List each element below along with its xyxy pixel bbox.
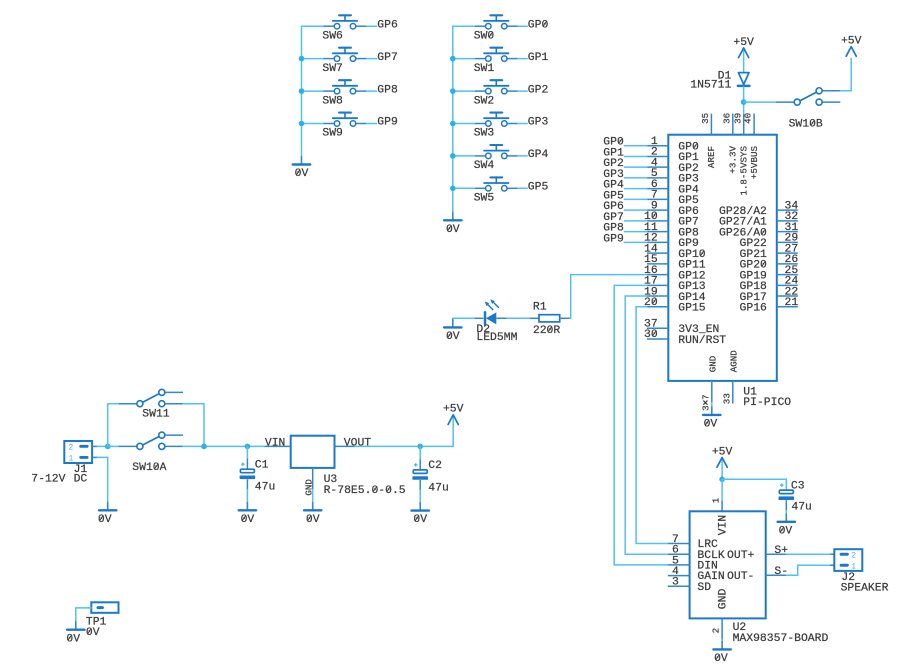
wire SW11 to right bus bbox=[183, 404, 204, 447]
pin 36 +3.3V of U1 bbox=[732, 114, 734, 135]
pin VOUT of U3 bbox=[335, 445, 355, 447]
regulator U3 body bbox=[291, 436, 335, 468]
ground 0V under C2 bbox=[419, 502, 421, 510]
wire junction to SW10B bbox=[744, 101, 777, 103]
svg-text:35: 35 bbox=[700, 113, 711, 124]
svg-text:VIN: VIN bbox=[265, 437, 286, 449]
wire GP14 net: U1 pin19 to U2 BCLK bbox=[625, 296, 668, 554]
wire J1 pin2 to junction bbox=[97, 445, 107, 447]
svg-text:SD: SD bbox=[697, 582, 711, 594]
svg-text:1N5711: 1N5711 bbox=[690, 79, 731, 91]
svg-text:OUT-: OUT- bbox=[727, 571, 754, 583]
svg-text:GP8: GP8 bbox=[377, 84, 398, 96]
pin 9 GP6 of U1 bbox=[647, 209, 668, 211]
pin 37 3V3_EN of U1 bbox=[647, 327, 668, 329]
switch SW10B bbox=[776, 88, 840, 105]
svg-text:GP1: GP1 bbox=[528, 52, 549, 64]
svg-text:2: 2 bbox=[69, 444, 74, 453]
wire GP13 net: U1 pin17 to U2 DIN bbox=[614, 285, 668, 565]
svg-text:MAX98357-BOARD: MAX98357-BOARD bbox=[733, 633, 829, 645]
pin 40 +5VBUS of U1 bbox=[753, 114, 755, 135]
svg-text:30: 30 bbox=[644, 329, 658, 341]
svg-text:21: 21 bbox=[785, 297, 799, 309]
junction column 1 bbox=[299, 56, 305, 62]
capacitor C3 bbox=[779, 483, 795, 513]
wire to GP7 label bbox=[367, 58, 377, 60]
push-button SW6 bbox=[324, 15, 367, 29]
svg-text:+5V: +5V bbox=[443, 404, 464, 416]
pin 4 GAIN of U2 bbox=[668, 575, 690, 577]
wire GP5 row left bbox=[453, 187, 475, 189]
svg-text:AREF: AREF bbox=[706, 146, 717, 168]
wire GP0 to U1 bbox=[624, 145, 647, 147]
wire to GP0 label bbox=[518, 25, 527, 27]
ground 0V under C1 bbox=[246, 502, 248, 510]
wire GP4 to U1 bbox=[624, 188, 647, 190]
wire SW10A to VIN bbox=[183, 445, 265, 447]
svg-text:3: 3 bbox=[672, 577, 679, 589]
wire SW10B to +5V bbox=[840, 58, 851, 91]
wire D1 to VSYS junction bbox=[743, 87, 745, 114]
wire S+ to J2 bbox=[786, 553, 830, 555]
wire S- to J2 bbox=[786, 565, 830, 575]
svg-text:GP2: GP2 bbox=[528, 84, 549, 96]
wire GP2 to U1 bbox=[624, 166, 647, 168]
pin 5 DIN of U2 bbox=[668, 564, 689, 566]
push-button SW3 bbox=[475, 113, 518, 127]
pin 24 GP18 of U1 bbox=[777, 284, 798, 286]
svg-text:GP3: GP3 bbox=[528, 117, 549, 129]
svg-text:+3.3V: +3.3V bbox=[728, 146, 739, 174]
wire J1 pin1 to 0V bbox=[97, 457, 107, 502]
junction column 2 bbox=[450, 186, 456, 192]
pin 20 GP15 of U1 bbox=[647, 306, 668, 308]
connector J2 bbox=[830, 549, 862, 571]
junction column 1 bbox=[299, 121, 305, 127]
switch SW11 bbox=[119, 389, 183, 406]
wire GP2 row left bbox=[453, 90, 475, 92]
junction column 1 bbox=[299, 88, 305, 94]
svg-text:2: 2 bbox=[851, 552, 856, 561]
ground 0V under C3 bbox=[785, 513, 787, 521]
wire GP7 row left bbox=[302, 58, 324, 60]
pin 25 GP19 of U1 bbox=[777, 274, 798, 276]
connector J1 bbox=[64, 441, 92, 463]
push-button SW9 bbox=[324, 113, 367, 127]
push-button SW8 bbox=[324, 80, 367, 94]
svg-text:GP4: GP4 bbox=[528, 149, 549, 161]
ground 0V column 1 bbox=[301, 156, 303, 164]
svg-text:GP5: GP5 bbox=[528, 182, 549, 194]
svg-text:VOUT: VOUT bbox=[344, 437, 372, 449]
svg-text:3×7: 3×7 bbox=[701, 394, 712, 411]
svg-text:GP9: GP9 bbox=[603, 233, 624, 245]
pin 2 GP1 of U1 bbox=[647, 155, 668, 157]
wire 0V bus column 2 bbox=[452, 26, 454, 212]
pin 27 GP21 of U1 bbox=[777, 252, 798, 254]
svg-text:1: 1 bbox=[851, 563, 856, 572]
pin 5 GP3 of U1 bbox=[647, 177, 668, 179]
wire GP6 row left bbox=[302, 25, 324, 27]
svg-text:SW11: SW11 bbox=[142, 408, 170, 420]
wire junction up to SW11 bbox=[108, 404, 119, 447]
resistor R1 bbox=[530, 315, 569, 322]
push-button SW7 bbox=[324, 48, 367, 62]
pin 3 SD of U2 bbox=[668, 585, 690, 587]
svg-text:47u: 47u bbox=[791, 502, 812, 514]
svg-text:39: 39 bbox=[732, 113, 743, 124]
pin 16 GP12 of U1 bbox=[647, 274, 668, 276]
pin 11 GP8 of U1 bbox=[647, 231, 668, 233]
pin 10 GP7 of U1 bbox=[647, 220, 668, 222]
switch SW10A bbox=[119, 432, 183, 449]
svg-text:SW6: SW6 bbox=[322, 30, 343, 42]
LED D2 bbox=[475, 299, 507, 324]
svg-text:SW4: SW4 bbox=[474, 160, 495, 172]
wire GP15 net: U1 pin20 to U2 LRC bbox=[636, 307, 668, 544]
wire VOUT to +5V and C2 bbox=[355, 445, 454, 447]
wire to GP5 label bbox=[518, 187, 527, 189]
svg-text:SPEAKER: SPEAKER bbox=[841, 583, 889, 595]
svg-text:+5V: +5V bbox=[841, 36, 862, 48]
svg-text:GP15: GP15 bbox=[678, 303, 706, 315]
power symbol +5V at VOUT bbox=[448, 415, 458, 425]
test point TP1 bbox=[91, 602, 118, 613]
svg-text:2: 2 bbox=[711, 628, 722, 634]
svg-text:C3: C3 bbox=[791, 480, 805, 492]
pin 35 AREF of U1 bbox=[710, 114, 712, 135]
pin 34 GP28/A2 of U1 bbox=[777, 209, 798, 211]
svg-text:GP16: GP16 bbox=[740, 303, 768, 315]
svg-text:+5VBUS: +5VBUS bbox=[749, 146, 760, 180]
svg-text:OUT+: OUT+ bbox=[727, 550, 755, 562]
svg-text:C1: C1 bbox=[255, 459, 269, 471]
junction at VSYS bbox=[741, 99, 747, 105]
svg-text:SW1: SW1 bbox=[474, 63, 495, 75]
svg-text:R1: R1 bbox=[533, 302, 547, 314]
svg-text:SW10A: SW10A bbox=[132, 462, 166, 474]
pin 1 stub of J1 bbox=[92, 456, 97, 458]
pin 7 LRC of U2 bbox=[668, 543, 689, 545]
ground 0V under U1 GND bbox=[711, 402, 713, 406]
IC U2 MAX98357 body bbox=[690, 511, 766, 618]
pin 15 GP11 of U1 bbox=[647, 263, 668, 265]
pin 39 1.8-5VSYS of U1 bbox=[743, 114, 745, 135]
pin 4 GP2 of U1 bbox=[647, 166, 668, 168]
pin 2 GND of U2 bbox=[721, 618, 723, 639]
svg-text:1.8-5VSYS: 1.8-5VSYS bbox=[738, 146, 749, 196]
svg-text:GP0: GP0 bbox=[528, 19, 549, 31]
svg-text:SW3: SW3 bbox=[474, 128, 495, 140]
svg-text:GP6: GP6 bbox=[377, 19, 398, 31]
svg-text:GP9: GP9 bbox=[377, 117, 398, 129]
svg-text:DC: DC bbox=[74, 473, 88, 485]
pin 6 GP4 of U1 bbox=[647, 188, 668, 190]
svg-text:SW10B: SW10B bbox=[789, 119, 823, 131]
pin 1 VIN of U2 bbox=[721, 479, 723, 501]
pin OUT+ of U2 bbox=[766, 553, 787, 555]
IC U1 PI-PICO body bbox=[668, 135, 777, 381]
push-button SW4 bbox=[475, 145, 518, 159]
svg-text:33: 33 bbox=[722, 393, 733, 404]
power symbol +5V above D1 bbox=[743, 49, 745, 72]
wire U3 GND to 0V bbox=[312, 489, 314, 502]
svg-text:1: 1 bbox=[711, 497, 722, 503]
junction at C2 bbox=[417, 444, 423, 450]
wire to GP4 label bbox=[518, 155, 527, 157]
svg-text:SW0: SW0 bbox=[474, 30, 495, 42]
wire GP3 to U1 bbox=[624, 177, 647, 179]
svg-text:RUN/RST: RUN/RST bbox=[678, 335, 726, 347]
svg-text:36: 36 bbox=[721, 113, 732, 124]
capacitor C1 bbox=[240, 446, 256, 502]
svg-text:SW5: SW5 bbox=[474, 193, 495, 205]
svg-text:S+: S+ bbox=[774, 545, 788, 557]
svg-text:1: 1 bbox=[69, 455, 74, 464]
ground 0V under J1 bbox=[107, 502, 109, 510]
wire to GP2 label bbox=[518, 90, 527, 92]
junction at C1 bbox=[245, 444, 251, 450]
ground 0V under U3 bbox=[312, 502, 314, 510]
wire GP8 to U1 bbox=[624, 231, 647, 233]
pin 1 GP0 of U1 bbox=[647, 145, 668, 147]
wire TP1 to 0V bbox=[76, 608, 92, 622]
svg-text:GND: GND bbox=[718, 589, 730, 610]
svg-text:GND: GND bbox=[708, 355, 719, 372]
junction at SW11 bus bbox=[201, 444, 207, 450]
wire GP8 row left bbox=[302, 90, 324, 92]
wire GP7 to U1 bbox=[624, 220, 647, 222]
pin 2 stub of J1 bbox=[92, 445, 97, 447]
svg-text:7-12V: 7-12V bbox=[31, 473, 65, 485]
ground 0V under U2 bbox=[721, 641, 723, 649]
svg-text:C2: C2 bbox=[428, 460, 442, 472]
pin 22 GP17 of U1 bbox=[777, 295, 798, 297]
pin GND of U3 bbox=[312, 468, 314, 489]
pin 6 BCLK of U2 bbox=[668, 553, 689, 555]
wire GP1 to U1 bbox=[624, 155, 647, 157]
wire 0V bus column 1 bbox=[301, 26, 303, 156]
push-button SW0 bbox=[475, 15, 518, 29]
wire D2 to R1 bbox=[507, 317, 530, 319]
svg-text:SW2: SW2 bbox=[474, 95, 495, 107]
pin 30 RUN/RST of U1 bbox=[647, 338, 668, 340]
svg-text:R-78E5.0-0.5: R-78E5.0-0.5 bbox=[324, 485, 406, 497]
pin 19 GP14 of U1 bbox=[647, 295, 668, 297]
svg-text:AGND: AGND bbox=[729, 350, 740, 373]
svg-text:40: 40 bbox=[743, 113, 754, 124]
wire to GP9 label bbox=[367, 123, 377, 125]
pin 7 GP5 of U1 bbox=[647, 198, 668, 200]
wire GP1 row left bbox=[453, 58, 475, 60]
wire GP4 row left bbox=[453, 155, 475, 157]
pin 12 GP9 of U1 bbox=[647, 241, 668, 243]
power symbol +5V at SW10B bbox=[846, 47, 856, 57]
svg-text:SW8: SW8 bbox=[322, 95, 343, 107]
pin VIN of U3 bbox=[265, 445, 291, 447]
wire to GP6 label bbox=[367, 25, 377, 27]
push-button SW2 bbox=[475, 80, 518, 94]
push-button SW5 bbox=[475, 177, 518, 191]
pin 29 GP22 of U1 bbox=[777, 241, 798, 243]
ground 0V at TP1 bbox=[75, 621, 77, 629]
pin 31 GP26/A0 of U1 bbox=[777, 231, 798, 233]
wire +5V to C3 bbox=[722, 479, 786, 490]
capacitor C2 bbox=[412, 446, 428, 502]
ground 0V at D2 bbox=[452, 318, 454, 321]
wire up to +5V at VOUT bbox=[452, 416, 454, 446]
svg-text:GP7: GP7 bbox=[377, 52, 398, 64]
svg-text:47u: 47u bbox=[428, 482, 449, 494]
wire U2 GND to 0V bbox=[721, 640, 723, 641]
junction column 2 bbox=[450, 56, 456, 62]
junction at J1 bbox=[105, 444, 111, 450]
svg-text:S-: S- bbox=[774, 566, 788, 578]
wire to GP3 label bbox=[518, 123, 527, 125]
svg-text:VIN: VIN bbox=[718, 515, 730, 536]
junction at U2 VIN bbox=[719, 477, 725, 483]
diode D1 1N5711 bbox=[738, 73, 750, 86]
junction column 2 bbox=[450, 121, 456, 127]
svg-text:47u: 47u bbox=[255, 482, 276, 494]
ground 0V column 2 bbox=[452, 212, 454, 220]
svg-text:+5V: +5V bbox=[733, 37, 754, 49]
wire GP3 row left bbox=[453, 123, 475, 125]
wire GP9 to U1 bbox=[624, 241, 647, 243]
push-button SW1 bbox=[475, 48, 518, 62]
pin 14 GP10 of U1 bbox=[647, 252, 668, 254]
wire junction to SW10A bbox=[108, 445, 119, 447]
svg-text:LED5MM: LED5MM bbox=[476, 332, 517, 344]
pin 26 GP20 of U1 bbox=[777, 263, 798, 265]
svg-text:+5V: +5V bbox=[712, 446, 733, 458]
wire to GP1 label bbox=[518, 58, 527, 60]
wire 0V to D2 cathode bbox=[453, 317, 475, 319]
pin 21 GP16 of U1 bbox=[777, 306, 798, 308]
wire GP12 net: U1 pin16 to R1 bbox=[569, 275, 647, 319]
svg-text:220R: 220R bbox=[533, 325, 561, 337]
junction column 2 bbox=[450, 88, 456, 94]
power symbol +5V at U2 bbox=[721, 458, 723, 479]
svg-text:SW9: SW9 bbox=[322, 128, 343, 140]
svg-text:PI-PICO: PI-PICO bbox=[743, 397, 791, 409]
pin 17 GP13 of U1 bbox=[647, 284, 668, 286]
wire GP9 row left bbox=[302, 123, 324, 125]
wire GP0 row left bbox=[453, 25, 475, 27]
pin 32 GP27/A1 of U1 bbox=[777, 220, 798, 222]
svg-text:SW7: SW7 bbox=[322, 63, 343, 75]
wire to GP8 label bbox=[367, 90, 377, 92]
junction column 2 bbox=[450, 153, 456, 159]
pin 33 AGND of U1 bbox=[732, 381, 734, 404]
pin 3x7 GND of U1 bbox=[711, 381, 713, 403]
wire GP6 to U1 bbox=[624, 209, 647, 211]
wire GP5 to U1 bbox=[624, 198, 647, 200]
pin OUT- of U2 bbox=[766, 574, 787, 576]
